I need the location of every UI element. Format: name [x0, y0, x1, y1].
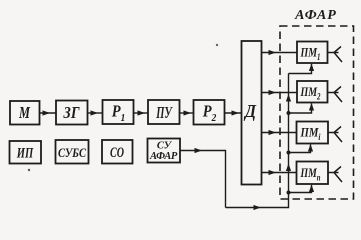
- block PMi: [297, 122, 329, 144]
- block R2: [194, 100, 225, 125]
- svg-text:Д: Д: [243, 101, 256, 121]
- wire M to ZG: [40, 110, 57, 115]
- wire branch to PM1 bottom: [289, 64, 315, 74]
- block D (divider, tall): [242, 41, 262, 185]
- block PU: [148, 100, 180, 124]
- svg-text:М: М: [18, 103, 30, 122]
- AFAR dashed boundary: [280, 26, 354, 199]
- wire D to PM1: [262, 50, 298, 55]
- block PM1: [297, 42, 328, 64]
- junction dot 3: [287, 191, 291, 195]
- svg-text:Р1: Р1: [111, 102, 125, 125]
- svg-text:АФАР: АФАР: [149, 151, 178, 162]
- svg-text:ПМп: ПМп: [300, 165, 321, 183]
- junction dot 2: [287, 151, 291, 155]
- svg-text:ПУ: ПУ: [156, 103, 173, 122]
- svg-text:ИП: ИП: [16, 146, 34, 162]
- block M: [10, 101, 40, 125]
- wire D to PMn: [262, 170, 297, 175]
- block SU AFAR: [148, 139, 181, 163]
- svg-text:ЗГ: ЗГ: [63, 103, 80, 122]
- antenna of PM1: [328, 47, 343, 63]
- block SUBS: [56, 140, 89, 164]
- svg-text:ПМ2: ПМ2: [300, 84, 321, 102]
- wire branch to PMn bottom: [289, 185, 315, 193]
- svg-text:Р2: Р2: [202, 102, 217, 125]
- svg-text:СО: СО: [110, 145, 124, 161]
- label AFAR: [294, 8, 337, 23]
- svg-text:СУ: СУ: [157, 141, 173, 152]
- wire R2 to D: [225, 110, 242, 115]
- wire SU AFAR output, right then down: [180, 148, 226, 208]
- svg-text:АФАР: АФАР: [294, 8, 337, 23]
- block SO: [102, 140, 133, 164]
- svg-text:ПМi: ПМi: [300, 125, 321, 143]
- wire branch to PMi bottom: [289, 144, 314, 153]
- block IP: [10, 141, 42, 164]
- block PM2: [297, 81, 328, 103]
- antenna of PMn: [328, 167, 342, 183]
- direction arrow on feed line (above PMn wire crossing): [286, 164, 291, 172]
- block R1: [103, 100, 134, 124]
- wire D to PM2: [262, 90, 298, 95]
- direction arrow on feed line (below PM2 wire crossing): [286, 94, 291, 102]
- junction dot 1: [287, 111, 291, 115]
- wire D to PMi: [262, 130, 297, 135]
- wire PU to R2: [180, 110, 194, 115]
- wire ZG to R1: [88, 110, 103, 115]
- wire bottom run to feed column: [226, 74, 289, 211]
- wire R1 to PU: [134, 110, 149, 115]
- svg-text:ПМ1: ПМ1: [300, 45, 321, 63]
- block PMn: [297, 162, 329, 185]
- block ZG (master oscillator): [56, 101, 88, 125]
- antenna of PM2: [328, 87, 343, 103]
- svg-text:СУБС: СУБС: [58, 145, 86, 160]
- antenna of PMi: [328, 127, 342, 143]
- wire branch to PM2 bottom: [289, 103, 315, 113]
